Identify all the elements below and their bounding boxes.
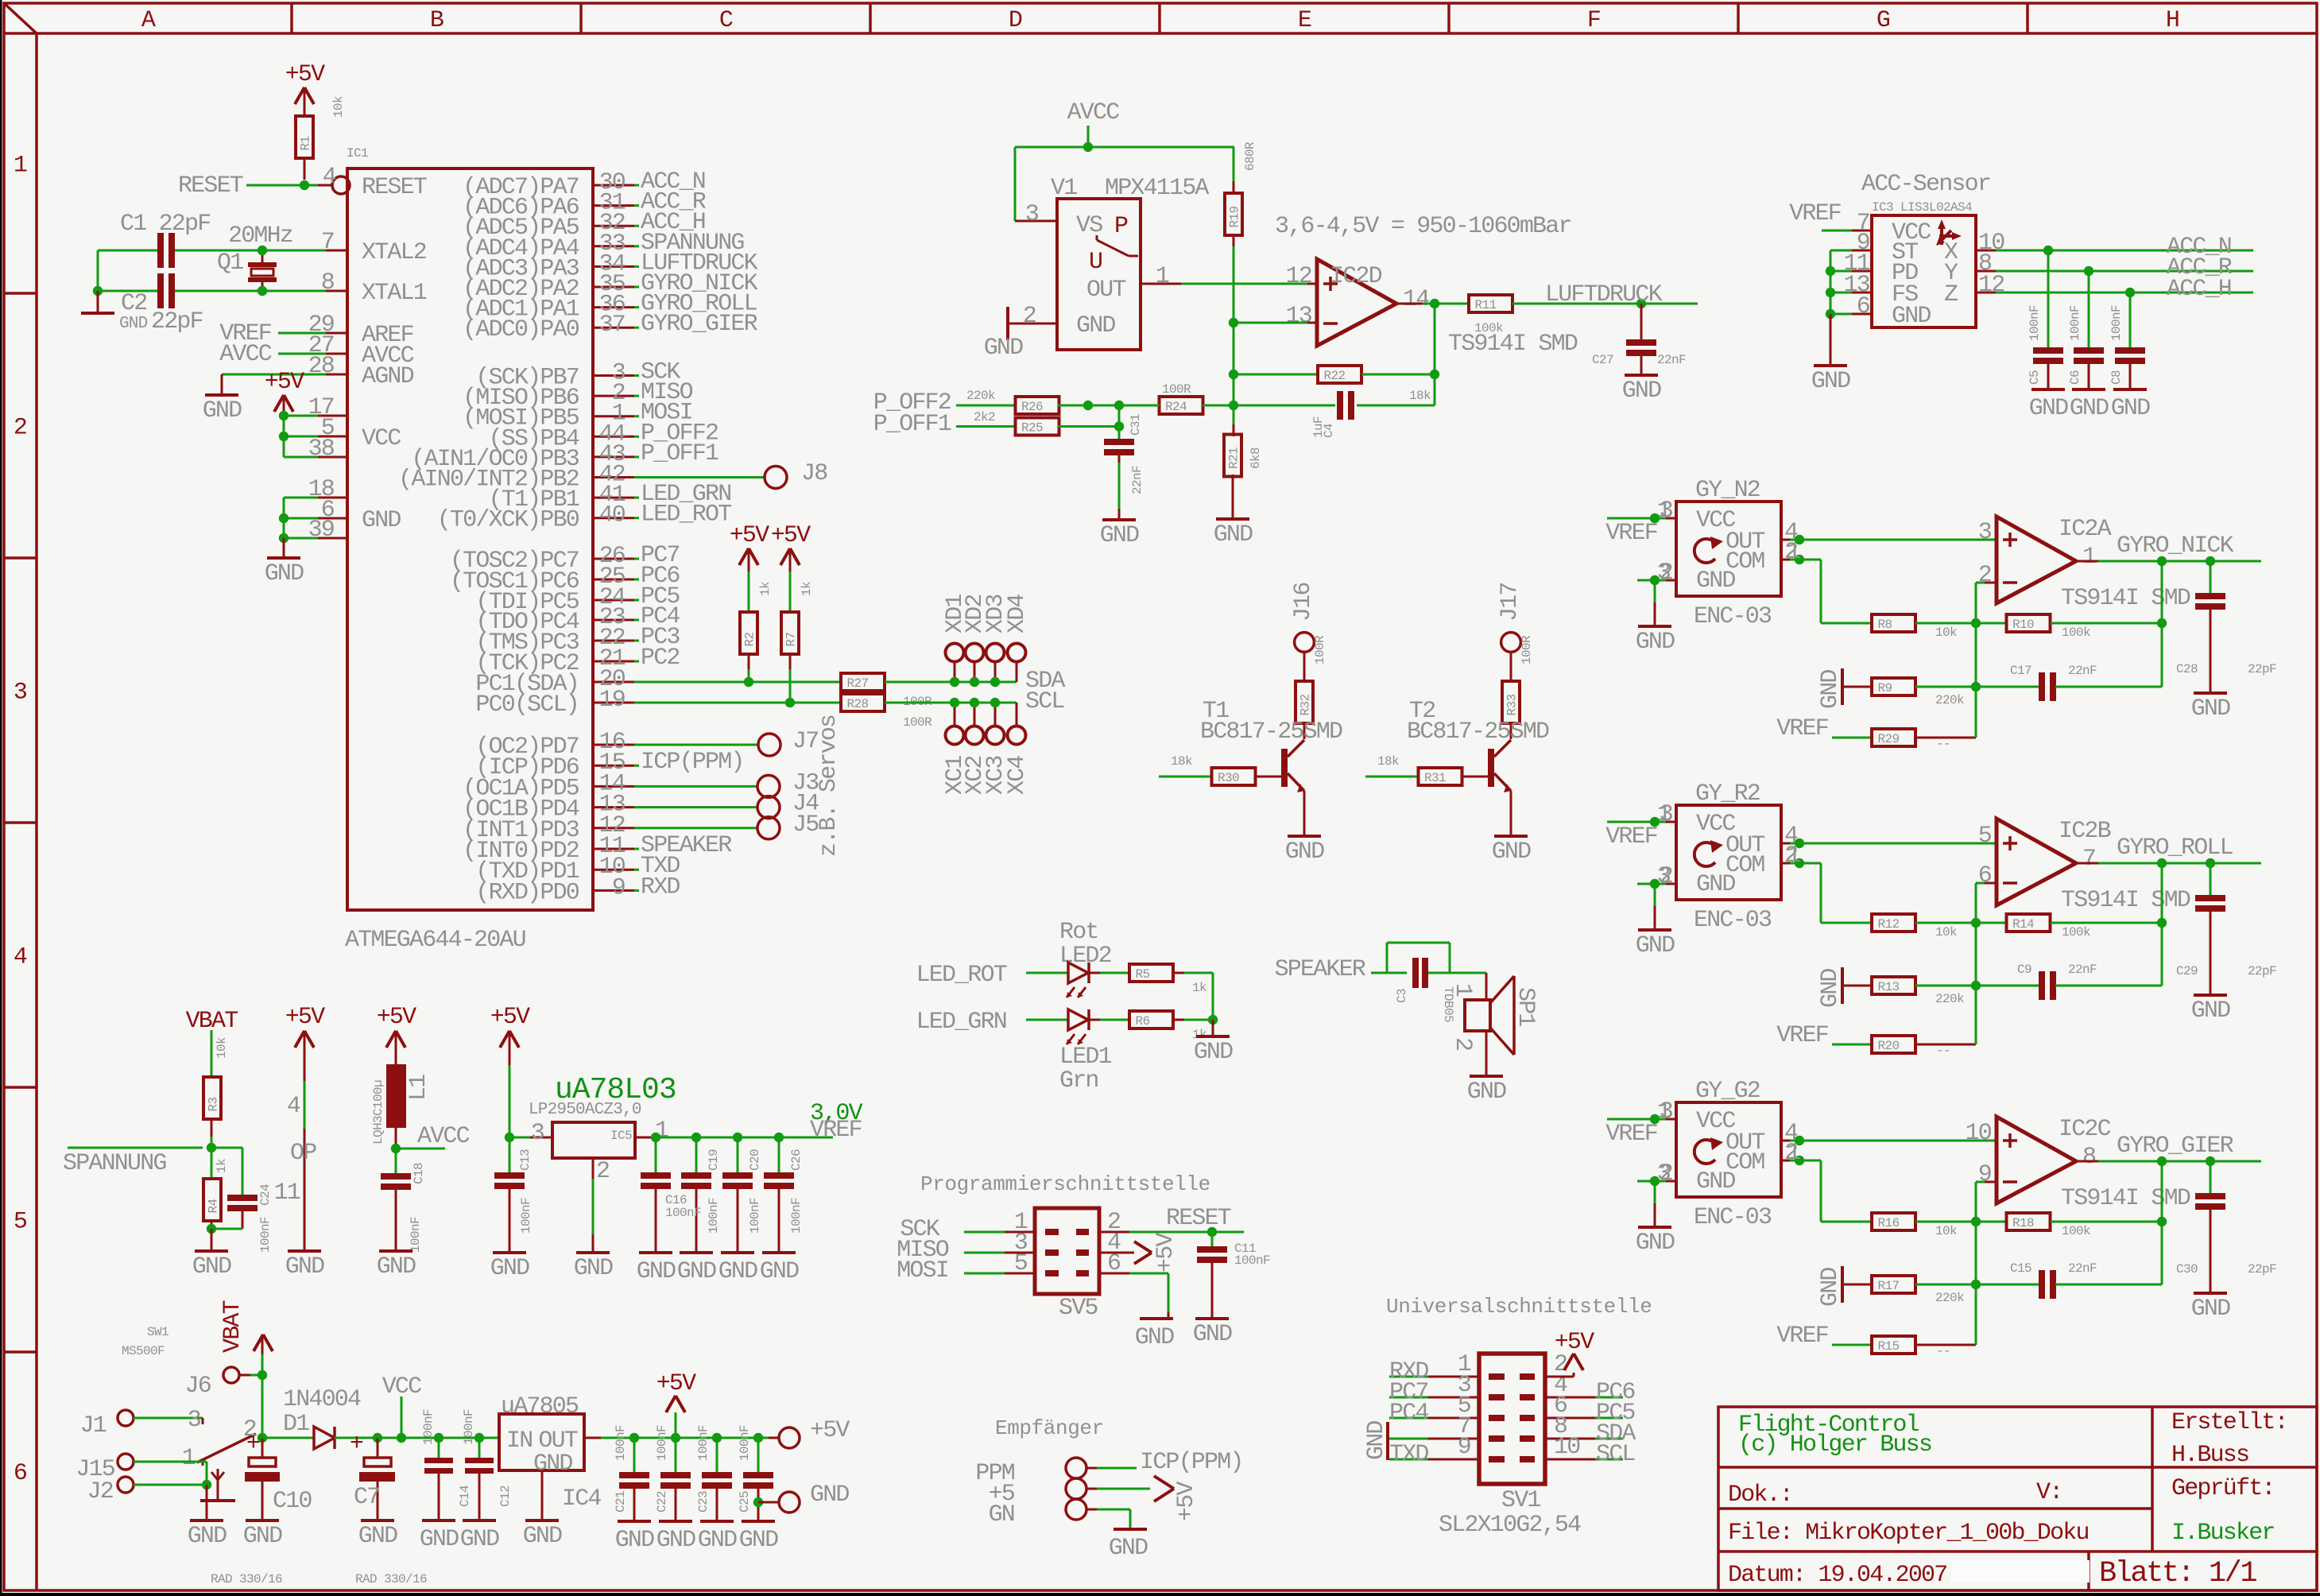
svg-text:XD4: XD4: [1004, 595, 1031, 633]
svg-text:+5V: +5V: [730, 522, 769, 549]
svg-text:100nF: 100nF: [665, 1206, 701, 1220]
svg-text:GND: GND: [2191, 1296, 2230, 1323]
svg-text:10k: 10k: [1935, 925, 1957, 939]
svg-text:9: 9: [612, 874, 625, 901]
svg-text:C20: C20: [748, 1149, 762, 1171]
svg-text:J17: J17: [1497, 583, 1524, 622]
svg-text:5: 5: [1014, 1250, 1028, 1277]
svg-text:C18: C18: [412, 1163, 426, 1184]
svg-text:10k: 10k: [1935, 1224, 1957, 1238]
svg-text:GND: GND: [810, 1482, 849, 1509]
svg-text:VREF: VREF: [1605, 520, 1657, 547]
svg-text:C5: C5: [2028, 370, 2042, 385]
svg-text:LP2950ACZ3,0: LP2950ACZ3,0: [529, 1101, 641, 1119]
svg-text:1k: 1k: [215, 1159, 229, 1173]
svg-text:Dok.:: Dok.:: [1728, 1482, 1792, 1509]
svg-text:GND: GND: [243, 1523, 282, 1550]
svg-text:GND: GND: [656, 1527, 695, 1554]
svg-text:GND: GND: [377, 1253, 416, 1280]
svg-text:GND: GND: [698, 1527, 737, 1554]
svg-text:+5V: +5V: [771, 522, 811, 549]
svg-text:P_OFF1: P_OFF1: [641, 440, 718, 467]
svg-text:IC5: IC5: [610, 1129, 632, 1143]
svg-text:3: 3: [14, 680, 27, 707]
svg-text:GND: GND: [1492, 839, 1531, 866]
svg-text:GND: GND: [358, 1523, 397, 1550]
svg-text:GND: GND: [192, 1253, 231, 1280]
svg-text:4: 4: [323, 164, 336, 191]
svg-text:3,6-4,5V = 950-1060mBar: 3,6-4,5V = 950-1060mBar: [1275, 213, 1571, 240]
svg-text:TS914I SMD: TS914I SMD: [1448, 331, 1578, 358]
svg-text:R21: R21: [1227, 447, 1241, 469]
svg-text:C9: C9: [2017, 963, 2031, 977]
svg-text:GND: GND: [523, 1523, 562, 1550]
svg-text:R1: R1: [299, 136, 313, 150]
svg-text:37: 37: [599, 312, 625, 339]
svg-text:22nF: 22nF: [2068, 1261, 2097, 1276]
svg-text:V:: V:: [2036, 1479, 2062, 1506]
svg-text:9: 9: [1978, 1161, 1991, 1188]
svg-text:J2: J2: [87, 1478, 113, 1505]
svg-text:GND: GND: [1193, 1321, 1232, 1348]
svg-text:+: +: [246, 1431, 260, 1458]
svg-text:TS914I SMD: TS914I SMD: [2061, 1185, 2190, 1212]
svg-text:U: U: [1089, 249, 1102, 276]
svg-text:100nF: 100nF: [655, 1425, 669, 1461]
svg-text:GY_G2: GY_G2: [1695, 1078, 1760, 1105]
svg-text:F: F: [1587, 7, 1600, 34]
svg-text:GND: GND: [1214, 521, 1253, 548]
svg-text:J16: J16: [1290, 583, 1317, 622]
svg-text:6: 6: [1857, 293, 1870, 320]
svg-text:ENC-03: ENC-03: [1694, 907, 1772, 934]
svg-text:VREF: VREF: [1605, 1121, 1657, 1148]
svg-text:5: 5: [1978, 823, 1992, 850]
svg-text:P: P: [1114, 213, 1128, 240]
svg-text:GND: GND: [1811, 368, 1850, 395]
svg-text:5: 5: [14, 1209, 27, 1236]
svg-text:GND: GND: [490, 1255, 529, 1282]
svg-text:1: 1: [1156, 263, 1169, 290]
svg-text:100nF: 100nF: [738, 1425, 752, 1461]
svg-text:LED1: LED1: [1059, 1044, 1112, 1071]
svg-text:22pF: 22pF: [2248, 1262, 2276, 1276]
svg-text:18k: 18k: [1171, 754, 1192, 769]
svg-text:+5V: +5V: [1152, 1233, 1179, 1273]
svg-text:IN: IN: [506, 1427, 532, 1455]
svg-text:TXD: TXD: [1389, 1441, 1428, 1468]
svg-text:100nF: 100nF: [462, 1409, 476, 1445]
svg-text:ENC-03: ENC-03: [1694, 1204, 1772, 1231]
svg-text:RESET: RESET: [362, 174, 427, 201]
svg-text:R10: R10: [2012, 618, 2034, 632]
svg-text:LUFTDRUCK: LUFTDRUCK: [1545, 281, 1663, 308]
svg-text:OUT: OUT: [1086, 277, 1125, 304]
svg-text:(T0/XCK)PB0: (T0/XCK)PB0: [437, 507, 579, 534]
svg-text:C29: C29: [2176, 964, 2198, 978]
svg-text:+5V: +5V: [1173, 1482, 1200, 1521]
svg-text:100nF: 100nF: [614, 1425, 628, 1461]
svg-text:Empfänger: Empfänger: [995, 1416, 1104, 1440]
svg-text:C12: C12: [498, 1486, 513, 1507]
svg-text:2: 2: [1023, 303, 1036, 330]
svg-text:VREF: VREF: [810, 1117, 862, 1144]
svg-text:SPEAKER: SPEAKER: [1275, 956, 1366, 983]
svg-text:ICP(PPM): ICP(PPM): [641, 749, 744, 776]
svg-text:R32: R32: [1299, 694, 1313, 715]
svg-text:100nF: 100nF: [696, 1425, 711, 1461]
svg-text:GYRO_GIER: GYRO_GIER: [641, 311, 758, 338]
svg-text:C21: C21: [614, 1491, 628, 1513]
svg-text:+5V: +5V: [265, 369, 304, 396]
svg-text:GYRO_NICK: GYRO_NICK: [2117, 533, 2234, 560]
svg-text:IC2A: IC2A: [2059, 516, 2112, 543]
svg-text:100k: 100k: [2062, 925, 2090, 939]
svg-text:J1: J1: [80, 1412, 107, 1439]
svg-text:R15: R15: [1878, 1339, 1900, 1354]
svg-text:R24: R24: [1165, 400, 1187, 414]
svg-text:I.Busker: I.Busker: [2171, 1520, 2275, 1547]
svg-text:100R: 100R: [1520, 635, 1534, 664]
svg-text:R27: R27: [847, 676, 869, 691]
svg-text:MOSI: MOSI: [897, 1257, 948, 1284]
svg-text:GND: GND: [1696, 871, 1735, 898]
svg-text:J8: J8: [801, 460, 827, 487]
svg-text:4: 4: [287, 1093, 300, 1120]
svg-text:P_OFF1: P_OFF1: [873, 411, 951, 438]
svg-text:LQH3C100µ: LQH3C100µ: [371, 1080, 385, 1145]
svg-text:3: 3: [1978, 519, 1992, 546]
svg-text:z.B. Servos: z.B. Servos: [815, 715, 842, 857]
svg-text:3: 3: [531, 1120, 544, 1147]
svg-text:8: 8: [321, 269, 335, 296]
svg-text:3: 3: [1025, 201, 1039, 228]
svg-text:+5V: +5V: [656, 1370, 696, 1397]
svg-text:3: 3: [1657, 863, 1671, 890]
svg-text:TS914I SMD: TS914I SMD: [2061, 585, 2190, 612]
svg-text:R20: R20: [1878, 1039, 1900, 1053]
svg-text:3: 3: [188, 1407, 201, 1434]
svg-text:GND: GND: [637, 1258, 676, 1285]
svg-text:10: 10: [1554, 1434, 1580, 1461]
svg-text:C8: C8: [2109, 370, 2124, 385]
svg-text:100k: 100k: [2062, 626, 2090, 640]
svg-text:22nF: 22nF: [1130, 466, 1145, 494]
svg-text:+5V: +5V: [377, 1004, 416, 1031]
svg-text:GYRO_GIER: GYRO_GIER: [2117, 1133, 2234, 1160]
svg-text:GND: GND: [533, 1451, 572, 1478]
svg-text:11: 11: [274, 1180, 300, 1207]
svg-text:A: A: [141, 7, 156, 34]
svg-text:1: 1: [1657, 1098, 1671, 1125]
svg-text:GND: GND: [1817, 1268, 1844, 1307]
svg-text:LED_GRN: LED_GRN: [916, 1009, 1006, 1036]
svg-text:RAD 330/16: RAD 330/16: [355, 1572, 427, 1586]
svg-text:1: 1: [2082, 544, 2096, 571]
svg-text:GND: GND: [2029, 395, 2068, 422]
svg-text:2: 2: [14, 415, 26, 442]
svg-text:RESET: RESET: [178, 172, 243, 199]
svg-text:ENC-03: ENC-03: [1694, 603, 1772, 630]
svg-text:VCC: VCC: [362, 425, 401, 452]
svg-text:220k: 220k: [1935, 992, 1964, 1006]
svg-text:100nF: 100nF: [519, 1198, 533, 1234]
svg-text:100nF: 100nF: [789, 1198, 804, 1234]
svg-text:100nF: 100nF: [2109, 305, 2124, 341]
svg-text:XTAL1: XTAL1: [362, 280, 427, 307]
svg-text:GND: GND: [119, 315, 148, 333]
svg-text:R3: R3: [207, 1097, 221, 1111]
svg-text:J6: J6: [185, 1373, 211, 1400]
svg-text:TS914I SMD: TS914I SMD: [2061, 887, 2190, 914]
svg-text:2: 2: [596, 1158, 609, 1185]
svg-text:2: 2: [1978, 562, 1991, 589]
svg-text:2k2: 2k2: [974, 410, 995, 424]
svg-text:--: --: [1936, 1044, 1950, 1058]
svg-text:MPX4115A: MPX4115A: [1105, 175, 1209, 202]
svg-text:GND: GND: [2070, 395, 2109, 422]
svg-text:10k: 10k: [215, 1037, 229, 1059]
svg-text:1: 1: [1787, 1140, 1800, 1167]
svg-text:19: 19: [599, 687, 625, 714]
svg-text:40: 40: [599, 502, 626, 529]
svg-text:C19: C19: [707, 1149, 721, 1171]
svg-text:R29: R29: [1878, 732, 1900, 746]
svg-text:MS500F: MS500F: [122, 1344, 165, 1358]
svg-text:SW1: SW1: [147, 1325, 168, 1339]
svg-text:RESET: RESET: [1166, 1205, 1231, 1232]
svg-text:100R: 100R: [1313, 635, 1327, 664]
svg-text:R30: R30: [1218, 771, 1239, 785]
svg-text:SL2X10G2,54: SL2X10G2,54: [1439, 1512, 1581, 1539]
svg-text:GND: GND: [760, 1258, 799, 1285]
svg-text:1: 1: [1657, 801, 1671, 828]
svg-text:--: --: [1936, 1344, 1950, 1358]
svg-text:VCC: VCC: [382, 1373, 421, 1400]
svg-text:File: MikroKopter_1_00b_Doku: File: MikroKopter_1_00b_Doku: [1728, 1520, 2089, 1547]
svg-text:B: B: [430, 7, 443, 34]
svg-text:GND: GND: [739, 1527, 778, 1554]
svg-text:R19: R19: [1228, 206, 1242, 227]
svg-text:6: 6: [1978, 862, 1992, 889]
svg-text:VREF: VREF: [1789, 200, 1841, 227]
svg-text:E: E: [1298, 7, 1311, 34]
svg-text:C25: C25: [738, 1491, 752, 1513]
svg-text:Programmierschnittstelle: Programmierschnittstelle: [920, 1172, 1210, 1196]
svg-text:R11: R11: [1475, 298, 1497, 312]
svg-text:Z: Z: [1944, 281, 1958, 308]
svg-text:100k: 100k: [1474, 321, 1503, 335]
svg-text:GND: GND: [984, 335, 1023, 362]
svg-text:C15: C15: [2010, 1261, 2031, 1276]
svg-text:GND: GND: [2191, 695, 2230, 722]
svg-text:GND: GND: [1194, 1039, 1233, 1066]
svg-text:+5V: +5V: [285, 61, 325, 88]
svg-text:Geprüft:: Geprüft:: [2171, 1475, 2275, 1502]
svg-text:GND: GND: [1109, 1535, 1148, 1562]
svg-text:14: 14: [1403, 286, 1429, 313]
svg-text:9: 9: [1458, 1434, 1470, 1461]
svg-text:R25: R25: [1021, 421, 1043, 436]
svg-text:38: 38: [308, 436, 335, 463]
svg-text:18k: 18k: [1409, 389, 1431, 403]
svg-text:ACC_H: ACC_H: [2167, 276, 2231, 303]
svg-text:+5V: +5V: [810, 1417, 850, 1444]
svg-text:GND: GND: [1467, 1079, 1506, 1106]
svg-text:PC2: PC2: [641, 645, 680, 672]
svg-text:C23: C23: [696, 1491, 711, 1513]
svg-text:AVCC: AVCC: [417, 1123, 470, 1150]
svg-text:22nF: 22nF: [2068, 664, 2097, 678]
svg-text:1: 1: [182, 1445, 196, 1472]
svg-text:J7: J7: [792, 728, 818, 755]
svg-text:(RXD)PD0: (RXD)PD0: [475, 879, 579, 906]
svg-text:1k: 1k: [1192, 981, 1206, 995]
svg-text:XTAL2: XTAL2: [362, 239, 426, 266]
svg-text:C3: C3: [1395, 989, 1409, 1003]
svg-text:GND: GND: [1076, 312, 1115, 339]
svg-text:R18: R18: [2012, 1216, 2034, 1230]
svg-text:C2: C2: [121, 290, 146, 317]
svg-text:220k: 220k: [1935, 1291, 1964, 1305]
svg-text:39: 39: [308, 517, 334, 544]
svg-text:1: 1: [14, 153, 27, 180]
svg-text:1k: 1k: [758, 582, 773, 596]
svg-text:GND: GND: [574, 1255, 613, 1282]
svg-text:G: G: [1877, 7, 1890, 34]
svg-text:1: 1: [1787, 539, 1800, 566]
svg-text:GND: GND: [1100, 522, 1139, 549]
svg-text:AVCC: AVCC: [219, 341, 272, 368]
svg-text:GND: GND: [1892, 303, 1931, 330]
svg-text:AGND: AGND: [362, 363, 414, 390]
svg-text:C7: C7: [354, 1484, 379, 1511]
svg-text:IC2C: IC2C: [2059, 1116, 2111, 1143]
svg-text:C14: C14: [458, 1486, 472, 1507]
svg-text:6: 6: [14, 1460, 27, 1487]
svg-text:Rot: Rot: [1059, 919, 1098, 946]
svg-text:28: 28: [308, 353, 335, 380]
svg-text:GND: GND: [460, 1526, 499, 1553]
svg-text:LED_ROT: LED_ROT: [916, 962, 1007, 989]
svg-text:+: +: [350, 1431, 363, 1458]
svg-text:GND: GND: [1636, 1230, 1675, 1257]
svg-text:GND: GND: [1636, 932, 1675, 959]
svg-text:100nF: 100nF: [2028, 305, 2042, 341]
svg-text:100k: 100k: [2062, 1224, 2090, 1238]
svg-text:H.Buss: H.Buss: [2171, 1442, 2248, 1469]
svg-text:22pF: 22pF: [2248, 662, 2276, 676]
svg-text:C27: C27: [1592, 353, 1613, 367]
svg-text:100nF: 100nF: [707, 1198, 721, 1234]
svg-text:R12: R12: [1878, 917, 1900, 932]
svg-text:GYRO_ROLL: GYRO_ROLL: [2117, 835, 2233, 862]
svg-text:R28: R28: [847, 697, 869, 711]
svg-text:GND: GND: [1696, 568, 1735, 595]
svg-text:18k: 18k: [1377, 754, 1399, 769]
svg-text:GND: GND: [2191, 997, 2230, 1025]
svg-text:GND: GND: [203, 397, 242, 424]
svg-text:GND: GND: [1636, 629, 1675, 656]
svg-text:22nF: 22nF: [2068, 963, 2097, 977]
svg-text:10k: 10k: [331, 96, 346, 118]
svg-text:20MHz: 20MHz: [228, 223, 292, 250]
svg-text:100nF: 100nF: [258, 1217, 273, 1253]
svg-text:100nF: 100nF: [2068, 305, 2082, 341]
svg-text:GND: GND: [265, 560, 304, 587]
svg-text:C26: C26: [789, 1149, 804, 1171]
svg-text:GND: GND: [615, 1527, 654, 1554]
svg-text:GY_R2: GY_R2: [1695, 781, 1760, 808]
svg-text:GND: GND: [420, 1526, 459, 1553]
svg-text:C13: C13: [518, 1149, 533, 1171]
svg-text:C4: C4: [1322, 424, 1336, 438]
svg-text:R13: R13: [1878, 980, 1900, 994]
svg-text:12: 12: [1286, 263, 1311, 290]
svg-text:VREF: VREF: [1776, 1323, 1828, 1350]
svg-text:8: 8: [2082, 1144, 2096, 1171]
svg-text:12: 12: [1978, 272, 2004, 299]
svg-text:1k: 1k: [800, 582, 814, 596]
svg-text:3: 3: [1657, 560, 1671, 587]
svg-text:220k: 220k: [966, 389, 995, 403]
svg-text:C1 22pF: C1 22pF: [120, 211, 210, 238]
svg-text:C17: C17: [2010, 664, 2031, 678]
svg-text:ATMEGA644-20AU: ATMEGA644-20AU: [345, 927, 525, 954]
svg-text:C30: C30: [2176, 1262, 2198, 1276]
svg-text:1N4004: 1N4004: [283, 1386, 361, 1413]
svg-text:SV1: SV1: [1501, 1487, 1540, 1514]
svg-text:VREF: VREF: [1776, 1022, 1828, 1049]
svg-text:Grn: Grn: [1059, 1067, 1098, 1094]
svg-text:22pF: 22pF: [2248, 964, 2276, 978]
svg-text:22nF: 22nF: [1657, 353, 1686, 367]
svg-text:R31: R31: [1424, 771, 1446, 785]
svg-text:Blatt: 1/1: Blatt: 1/1: [2099, 1557, 2256, 1590]
svg-text:GND: GND: [1817, 969, 1844, 1008]
svg-text:IC1: IC1: [347, 146, 368, 161]
svg-text:6k8: 6k8: [1249, 447, 1263, 469]
svg-text:IC2B: IC2B: [2059, 818, 2111, 845]
svg-text:PC0(SCL): PC0(SCL): [475, 691, 579, 719]
svg-text:C31: C31: [1129, 414, 1143, 436]
svg-text:ICP(PPM): ICP(PPM): [1140, 1449, 1243, 1476]
svg-text:R33: R33: [1505, 694, 1520, 715]
svg-text:C28: C28: [2176, 662, 2198, 676]
svg-text:BC817-25SMD: BC817-25SMD: [1407, 719, 1549, 746]
svg-text:SCL: SCL: [1025, 688, 1064, 715]
svg-text:D1: D1: [283, 1411, 309, 1438]
svg-text:10: 10: [1966, 1120, 1992, 1147]
svg-text:GY_N2: GY_N2: [1695, 477, 1760, 504]
svg-text:+5V: +5V: [285, 1004, 325, 1031]
svg-text:GND: GND: [188, 1523, 227, 1550]
svg-text:IC2D: IC2D: [1330, 263, 1382, 290]
svg-text:C24: C24: [258, 1184, 273, 1206]
svg-text:(ADC0)PA0: (ADC0)PA0: [463, 316, 579, 343]
svg-text:R5: R5: [1136, 967, 1150, 982]
svg-text:H: H: [2166, 7, 2179, 34]
svg-text:R6: R6: [1136, 1014, 1150, 1028]
svg-text:Erstellt:: Erstellt:: [2171, 1409, 2287, 1436]
svg-text:BC817-25SMD: BC817-25SMD: [1200, 719, 1342, 746]
svg-text:Universalschnittstelle: Universalschnittstelle: [1386, 1295, 1652, 1319]
svg-text:GND: GND: [677, 1258, 716, 1285]
svg-text:100nF: 100nF: [409, 1217, 423, 1253]
svg-text:GND: GND: [2111, 395, 2150, 422]
svg-text:13: 13: [1286, 303, 1312, 330]
svg-text:R22: R22: [1324, 369, 1346, 383]
